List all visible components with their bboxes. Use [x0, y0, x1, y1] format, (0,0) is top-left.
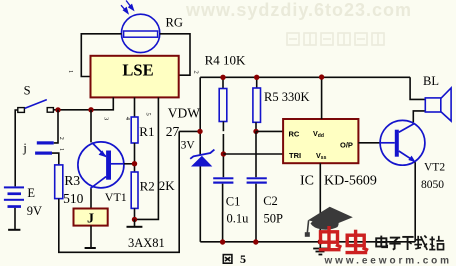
wire R1 bottom through node to R2 [134, 143, 136, 172]
watermark graduation cap [305, 207, 353, 237]
junction R5/C2/RC [253, 129, 258, 134]
svg-text:RG: RG [166, 15, 183, 29]
Vdd wire [321, 77, 323, 119]
resistor R4 [222, 77, 224, 88]
wire VT1 base to R1/R2 node [124, 163, 135, 165]
VT2 emitter wire [414, 162, 416, 242]
transistor VT1 emitter feed wire [90, 110, 92, 143]
svg-text:VDW: VDW [168, 106, 200, 121]
R5 bottom lead [255, 122, 257, 131]
wire RG right to LSE pin 2 [160, 34, 190, 75]
svg-text:J: J [87, 212, 94, 227]
svg-text:3: 3 [103, 117, 110, 120]
mid branch wire [179, 130, 200, 132]
svg-text:www.eeworm.com: www.eeworm.com [324, 256, 452, 266]
IC LSE light-control module [91, 56, 179, 98]
zener diode VDW [190, 150, 214, 167]
svg-text:R1: R1 [139, 124, 154, 139]
battery E plates [4, 186, 24, 208]
svg-text:R5 330K: R5 330K [264, 90, 310, 104]
svg-text:2: 2 [58, 137, 64, 140]
wire contact j to R3 [52, 153, 59, 165]
switch S [18, 100, 54, 113]
caption 图 5 [223, 255, 232, 264]
svg-text:TRI: TRI [289, 151, 301, 160]
svg-text:LSE: LSE [122, 61, 153, 80]
watermark 虫虫 red [319, 226, 368, 253]
speaker BL [425, 88, 451, 121]
capacitor C2 [247, 177, 267, 179]
svg-text:27: 27 [166, 124, 180, 139]
svg-text:www.sydzdiy.6to23.com: www.sydzdiy.6to23.com [185, 0, 412, 20]
svg-text:1: 1 [67, 70, 74, 73]
wire RC pin [256, 130, 283, 132]
node wire switch to LSE pin 3 [53, 97, 113, 109]
svg-text:VT2: VT2 [424, 162, 445, 174]
svg-text:E: E [27, 186, 35, 200]
svg-text:1: 1 [58, 148, 64, 151]
C2 bottom lead [255, 184, 257, 242]
svg-text:BL: BL [423, 74, 439, 88]
top rail [200, 76, 410, 78]
svg-text:R3: R3 [64, 173, 80, 188]
ground [313, 249, 328, 255]
svg-text:5: 5 [240, 252, 246, 266]
C1 bottom lead [222, 184, 224, 242]
svg-text:510: 510 [63, 191, 84, 206]
svg-text:3AX81: 3AX81 [128, 236, 165, 250]
R2 node terminal lead [134, 220, 136, 227]
svg-text:2: 2 [193, 71, 200, 74]
R2 node terminal bar [127, 226, 143, 228]
transistor VT2 [380, 120, 425, 165]
wire node down to relay contact j [54, 110, 58, 143]
capacitor C1 [213, 177, 233, 179]
transistor VT1 [78, 142, 124, 189]
svg-text:9V: 9V [27, 204, 42, 218]
svg-text:RC: RC [289, 130, 300, 139]
zener feed wire [199, 77, 201, 154]
resistor R1 [131, 117, 138, 143]
relay contact j lower bar [35, 152, 52, 155]
wire R3 bottom to left rail [59, 131, 179, 252]
capacitor C2 lead [255, 131, 257, 177]
photoresistor RG circle [121, 14, 159, 52]
svg-text:j: j [22, 140, 27, 155]
zener anode wire [199, 167, 201, 242]
photoresistor RG body [124, 31, 158, 37]
resistor R3 [55, 165, 63, 199]
resistor R5 [256, 77, 258, 88]
svg-text:0.1u: 0.1u [227, 211, 250, 225]
wire TRI pin [223, 153, 283, 155]
Vss wire [319, 163, 321, 248]
relay coil J box [74, 209, 108, 226]
wire switch to battery [15, 110, 18, 186]
resistor R2 [131, 172, 138, 208]
relay J terminal bar [85, 247, 96, 249]
wire O/P to VT2 [358, 142, 380, 144]
svg-text:C1: C1 [226, 195, 241, 209]
faint watermark chinese row [287, 33, 384, 45]
svg-text:S: S [24, 84, 31, 98]
svg-text:50P: 50P [264, 211, 284, 225]
battery bottom lead [14, 208, 16, 229]
relay J bottom lead [90, 226, 92, 248]
svg-text:2K: 2K [159, 178, 176, 193]
junction R2/pin5 [132, 217, 137, 222]
battery terminal bar [8, 229, 20, 231]
junction switch node [55, 107, 60, 112]
svg-text:VT1: VT1 [105, 190, 127, 204]
relay contact j upper bar [37, 141, 54, 144]
svg-text:5: 5 [145, 113, 152, 116]
svg-text:R4 10K: R4 10K [205, 52, 246, 67]
junction C1 rail [220, 239, 225, 244]
svg-text:KD-5609: KD-5609 [324, 173, 377, 188]
R4 bottom lead with gap [222, 122, 224, 132]
junction emitter node [88, 107, 93, 112]
junction base node [132, 161, 137, 166]
junction TRI tap [221, 151, 226, 156]
LSE pin 5 wire down to R2 bottom [135, 97, 159, 219]
svg-text:8050: 8050 [421, 179, 444, 191]
svg-text:R2: R2 [140, 179, 155, 194]
VT2 collector wire to speaker [413, 111, 425, 122]
svg-text:C2: C2 [263, 194, 278, 208]
watermark 电子下载站 [376, 236, 444, 251]
junction zener node [197, 129, 202, 134]
junction C2 rail [253, 239, 258, 244]
bottom rail [200, 241, 415, 243]
svg-text:3V: 3V [181, 139, 196, 151]
svg-text:IC: IC [300, 173, 314, 188]
svg-text:O/P: O/P [340, 141, 353, 150]
rail corner to speaker [410, 77, 425, 99]
IC KD-5609 box [283, 119, 358, 163]
wire VT1 collector to relay J [90, 189, 92, 209]
wire RG left to corner [81, 34, 121, 77]
LSE pin 4 wire [134, 97, 136, 117]
photoresistor RG light arrows [121, 1, 133, 14]
